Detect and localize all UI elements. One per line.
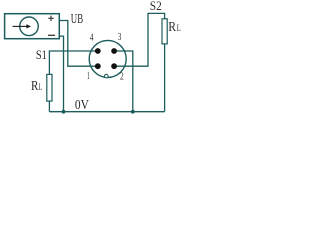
keying notch: [105, 74, 109, 78]
pin 4: [95, 48, 101, 54]
wire: pin2 right, up, over to RL right: [114, 13, 165, 66]
wire: RL left bottom to rail: [48, 101, 50, 112]
svg-text:S1: S1: [36, 48, 47, 62]
junction: pin3 wire on rail: [131, 110, 135, 114]
plus sign: [48, 16, 53, 21]
minus sign: [48, 34, 55, 36]
junction: minus wire on rail: [62, 110, 66, 114]
resistor RL left: [47, 74, 52, 101]
svg-text:2: 2: [120, 71, 124, 82]
svg-text:UB: UB: [71, 11, 83, 26]
svg-text:R: R: [168, 19, 176, 34]
resistor RL right: [162, 19, 167, 44]
pin 3: [111, 48, 117, 54]
wire: S1 / pin4 horizontal and down to RL left: [49, 51, 97, 74]
wire: minus terminal down to 0V rail: [59, 36, 63, 112]
svg-text:1: 1: [87, 71, 90, 82]
svg-text:L: L: [39, 83, 43, 93]
pin 2: [111, 63, 117, 69]
source circle: [20, 17, 39, 36]
svg-text:S2: S2: [150, 0, 162, 13]
svg-text:R: R: [31, 78, 38, 93]
svg-text:3: 3: [118, 32, 122, 43]
pin 1: [95, 63, 101, 69]
wire: RL right bottom down to rail: [164, 44, 166, 112]
svg-text:L: L: [177, 24, 181, 34]
wire: plus terminal to pin1: [59, 21, 98, 67]
svg-text:4: 4: [90, 33, 94, 44]
svg-text:0V: 0V: [75, 97, 89, 112]
connector circle: [89, 40, 126, 77]
source arrow: [13, 24, 32, 28]
supply box UB: [5, 14, 60, 39]
wire: 0V bottom rail: [49, 111, 164, 113]
wire: pin3 right and down to rail: [114, 51, 133, 112]
